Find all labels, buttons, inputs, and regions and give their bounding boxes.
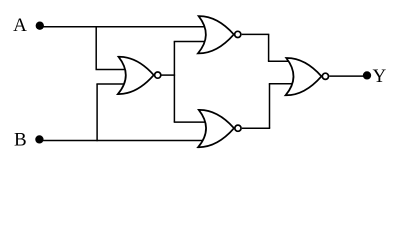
wire U4 top input stub xyxy=(268,60,289,62)
wire U1 output xyxy=(161,74,175,76)
wire middle branch vertical xyxy=(173,42,175,123)
wire U4 output to Y xyxy=(329,75,367,77)
wire U4 bottom input stub xyxy=(269,83,293,85)
wire U2 bottom input stub xyxy=(174,41,205,43)
wire U3 output xyxy=(242,127,270,129)
svg-text:B: B xyxy=(14,130,27,151)
wire U3 to U4 vertical xyxy=(269,84,271,129)
terminal dot A xyxy=(36,22,44,30)
NOR gate U1 xyxy=(118,57,161,94)
wire U3 top input stub xyxy=(174,121,206,123)
svg-text:A: A xyxy=(13,15,27,36)
NOR gate U3 xyxy=(198,110,241,147)
wire B branch vertical xyxy=(96,84,98,141)
NOR gate U2 xyxy=(198,16,241,53)
wire U1 bottom input stub xyxy=(96,83,124,85)
terminal dot B xyxy=(35,135,43,143)
terminal dot Y xyxy=(363,71,371,79)
svg-text:Y: Y xyxy=(373,66,387,87)
wire A horizontal xyxy=(40,26,205,28)
wire A branch vertical xyxy=(95,27,97,70)
wire U2 to U4 vertical xyxy=(268,34,270,61)
wire U2 output xyxy=(242,33,270,35)
wire U1 top input stub xyxy=(96,69,126,71)
NOR gate U4 xyxy=(286,58,329,95)
wire B horizontal xyxy=(39,140,203,142)
